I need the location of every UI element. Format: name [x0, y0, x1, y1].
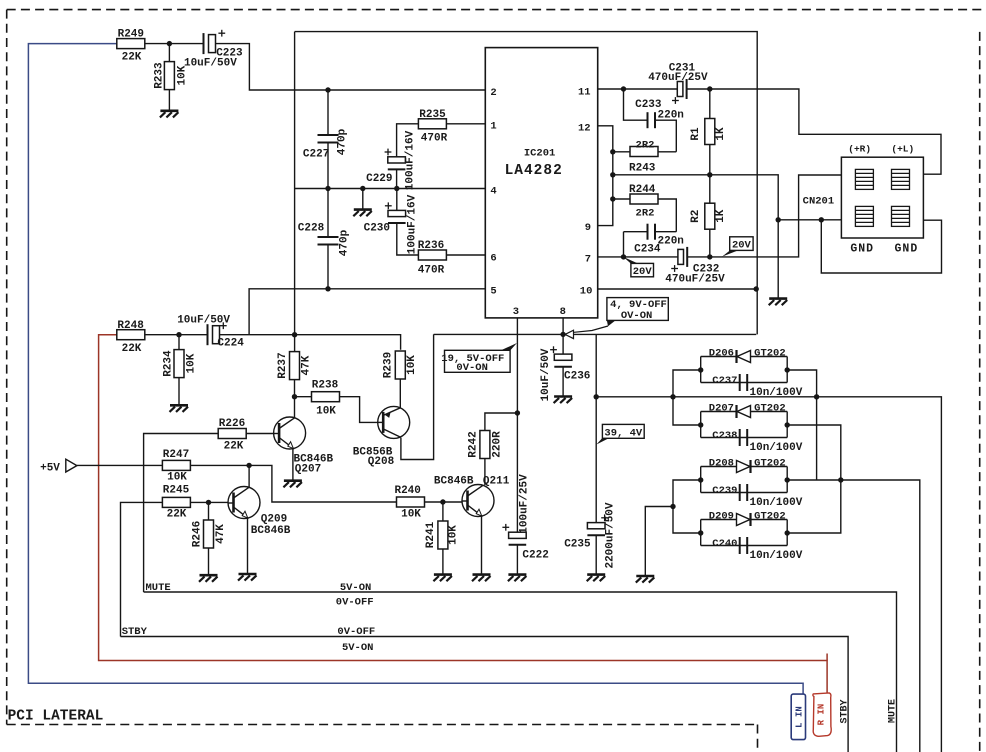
svg-text:2R2: 2R2 — [636, 208, 655, 220]
wire MUTE net — [144, 592, 897, 752]
svg-text:R226: R226 — [219, 418, 245, 430]
wire R236 to IC pin 6 — [446, 254, 485, 256]
svg-text:0V-ON: 0V-ON — [456, 362, 488, 374]
node +5V symbol — [66, 459, 77, 472]
resistor R233 — [168, 44, 170, 63]
svg-text:5: 5 — [490, 286, 496, 298]
resistor R248 — [117, 330, 145, 340]
node C234 drop junction with arrow — [621, 254, 626, 259]
svg-text:2: 2 — [490, 87, 496, 99]
svg-text:39, 4V: 39, 4V — [604, 427, 643, 439]
capacitor C238 — [740, 429, 748, 446]
capacitor C228 — [327, 189, 329, 237]
svg-text:C240: C240 — [712, 538, 737, 550]
svg-text:10n/100V: 10n/100V — [750, 442, 803, 454]
node R242 branch junction — [515, 410, 520, 415]
wire R226 left to MUTE vertical — [144, 434, 219, 593]
svg-text:47K: 47K — [215, 524, 227, 544]
svg-text:C229: C229 — [366, 173, 392, 185]
svg-text:R244: R244 — [629, 184, 656, 196]
ground R241 — [433, 575, 452, 582]
wire Q211 emitter to ground — [481, 516, 483, 575]
node D207 left tap — [698, 422, 703, 427]
node R1 top junction — [707, 86, 712, 91]
svg-text:4: 4 — [490, 185, 496, 197]
wire IC pin 10 row — [598, 288, 757, 290]
svg-text:8: 8 — [560, 306, 566, 318]
svg-text:C235: C235 — [564, 539, 591, 551]
wire +5V to R247 — [77, 464, 162, 466]
ground C235 — [587, 575, 606, 582]
node R244 left junction — [610, 196, 615, 201]
svg-text:0V-OFF: 0V-OFF — [336, 596, 374, 608]
svg-text:STBY: STBY — [840, 699, 851, 723]
svg-text:6: 6 — [490, 253, 496, 265]
svg-text:5V-ON: 5V-ON — [340, 582, 372, 594]
node CN201 left branch junction — [776, 217, 781, 222]
wire IC pin 4 row — [295, 188, 486, 190]
ground C222 — [508, 575, 527, 582]
svg-text:470R: 470R — [421, 133, 448, 145]
ground Q211 — [472, 575, 491, 582]
wire IC pin 11 row — [598, 88, 678, 90]
node D208 right tap — [785, 477, 790, 482]
node D208 left tap — [698, 477, 703, 482]
resistor R238 — [295, 396, 312, 398]
callout 20V left box leader — [624, 257, 639, 264]
svg-text:470uF/25V: 470uF/25V — [648, 72, 708, 84]
svg-text:BC846B: BC846B — [434, 475, 474, 487]
svg-text:D209: D209 — [709, 511, 734, 523]
wire pin 8 row horizontal — [434, 333, 757, 335]
svg-text:GT202: GT202 — [754, 511, 786, 523]
ground R233 — [160, 111, 179, 118]
svg-text:C230: C230 — [364, 222, 390, 234]
svg-text:GT202: GT202 — [754, 403, 786, 415]
node R2 bottom junction — [707, 254, 712, 259]
svg-text:10K: 10K — [406, 355, 418, 375]
wire R248 to C224 — [145, 334, 208, 336]
svg-text:C237: C237 — [712, 375, 737, 387]
svg-text:GT202: GT202 — [754, 458, 786, 470]
callout 19,5V-OFF leader — [501, 343, 517, 350]
node C228 bottom junction — [325, 286, 330, 291]
svg-text:5V-ON: 5V-ON — [342, 642, 374, 654]
svg-text:R238: R238 — [312, 380, 339, 392]
svg-text:10K: 10K — [316, 406, 336, 418]
capacitor C233 — [624, 89, 648, 120]
wire R245 to Q209 base — [191, 501, 228, 503]
svg-text:R247: R247 — [163, 449, 189, 461]
svg-text:R248: R248 — [117, 320, 144, 332]
callout 4,9V-OFF box leader — [607, 320, 616, 326]
svg-text:1K: 1K — [715, 127, 727, 141]
svg-text:MUTE: MUTE — [888, 699, 899, 723]
CN201 pad top-left — [855, 169, 873, 189]
wire Q208 collector to pin8 row — [401, 334, 434, 459]
svg-text:10n/100V: 10n/100V — [750, 387, 803, 399]
capacitor C230 — [396, 189, 398, 211]
wire top box — [295, 32, 758, 335]
capacitor C224 — [208, 324, 220, 345]
wire R238 to Q208 base — [340, 397, 378, 423]
diode D206 / capacitor C237 pair frame — [700, 357, 702, 383]
svg-text:7: 7 — [585, 253, 591, 265]
wire IC pin 3 vertical — [516, 318, 518, 532]
svg-text:Q208: Q208 — [368, 456, 395, 468]
svg-text:R IN: R IN — [817, 704, 827, 726]
resistor R239 — [395, 351, 405, 379]
svg-text:+5V: +5V — [40, 463, 60, 475]
wire second output row — [841, 480, 920, 752]
node C229/C230 junction — [394, 186, 399, 191]
node C224-row to R237 vertical — [292, 332, 297, 337]
transistor Q208 — [378, 406, 410, 438]
diode D207 / capacitor C238 pair frame — [700, 412, 702, 438]
resistor R246 — [208, 502, 210, 520]
page dashed border left — [6, 10, 8, 725]
wire R235 left to C229 — [397, 124, 419, 157]
node R241 junction — [440, 499, 445, 504]
wire C224 to R239 top — [220, 335, 401, 350]
node R246 junction — [206, 500, 211, 505]
svg-text:100uF/16V: 100uF/16V — [404, 130, 416, 190]
svg-text:1K: 1K — [715, 209, 727, 223]
node R1/R2 mid junction — [707, 172, 712, 177]
svg-text:R242: R242 — [468, 431, 480, 457]
callout 20V right box leader — [722, 251, 737, 257]
svg-text:C228: C228 — [298, 222, 325, 234]
node D206 right tap — [785, 367, 790, 372]
transistor Q211 — [462, 485, 494, 517]
svg-text:IC201: IC201 — [524, 148, 556, 160]
callout 20V right box — [730, 237, 753, 251]
svg-text:10uF/50V: 10uF/50V — [177, 315, 230, 327]
svg-text:22K: 22K — [122, 52, 142, 64]
svg-text:C224: C224 — [217, 338, 244, 350]
wire R240 to Q211 base — [425, 501, 463, 503]
resistor R244 — [613, 198, 630, 200]
svg-text:10: 10 — [580, 286, 593, 298]
capacitor C227 — [327, 90, 329, 134]
svg-text:Q207: Q207 — [295, 464, 321, 476]
page dashed border top — [7, 9, 982, 11]
svg-text:100uF/25V: 100uF/25V — [519, 474, 531, 534]
ground Q209 — [238, 574, 257, 581]
svg-text:GND: GND — [895, 243, 919, 256]
diode D208 — [737, 460, 751, 473]
connector CN201 box — [841, 157, 923, 238]
wire Q207 emitter to ground — [292, 448, 294, 481]
resistor R249 — [117, 39, 145, 49]
resistor R243 — [613, 151, 630, 153]
svg-text:22K: 22K — [224, 441, 244, 453]
page dashed border right — [979, 32, 981, 752]
resistor R241 — [442, 502, 444, 521]
svg-text:3: 3 — [513, 306, 519, 318]
svg-text:R243: R243 — [629, 162, 656, 174]
svg-text:D208: D208 — [709, 458, 734, 470]
svg-text:10K: 10K — [186, 353, 198, 373]
wire IC pin 7 row — [598, 256, 678, 258]
callout 4,9V-OFF box — [607, 298, 668, 321]
callout 20V left box — [631, 263, 654, 276]
wire D208 right tap row — [787, 479, 841, 481]
node D207 right tap — [785, 422, 790, 427]
svg-text:C234: C234 — [634, 244, 661, 256]
node pin10 right junction — [754, 286, 759, 291]
page dashed border bottom-right vertical — [757, 725, 759, 752]
wire IC pin 12 to pin 9 loop — [598, 126, 613, 226]
wire diode bracket to ground — [645, 507, 673, 577]
diode D206 — [737, 350, 751, 363]
svg-text:R245: R245 — [163, 485, 190, 497]
svg-text:C238: C238 — [712, 430, 737, 442]
svg-text:C222: C222 — [522, 550, 548, 562]
wire Q209 emitter to ground — [247, 518, 249, 574]
ground Q207 — [283, 481, 302, 488]
svg-text:0V-OFF: 0V-OFF — [337, 626, 375, 638]
svg-text:100uF/16V: 100uF/16V — [407, 194, 419, 254]
svg-text:10K: 10K — [448, 525, 460, 545]
wire diode-net output row — [596, 397, 941, 752]
svg-text:R249: R249 — [118, 29, 144, 41]
capacitor C237 — [740, 374, 748, 391]
svg-text:10n/100V: 10n/100V — [750, 497, 803, 509]
svg-text:1: 1 — [490, 121, 496, 133]
svg-text:10n/100V: 10n/100V — [750, 550, 803, 562]
svg-text:D207: D207 — [709, 403, 734, 415]
wire C232 to CN201 top-left pad — [687, 175, 841, 257]
capacitor C222 — [509, 532, 527, 545]
svg-text:PCI LATERAL: PCI LATERAL — [8, 708, 104, 724]
svg-text:C239: C239 — [712, 485, 737, 497]
svg-text:10uF/50V: 10uF/50V — [184, 58, 237, 70]
svg-text:C227: C227 — [303, 149, 329, 161]
capacitor C223 — [204, 33, 216, 54]
svg-text:R241: R241 — [425, 521, 437, 548]
wire red stub at R-IN corner — [826, 654, 828, 661]
node R249/R233/C223 junction — [167, 41, 172, 46]
wire CN201 bottom loop — [821, 220, 941, 273]
svg-text:R239: R239 — [383, 352, 395, 378]
svg-text:R246: R246 — [192, 521, 204, 547]
ground C236 — [554, 397, 573, 404]
svg-text:220n: 220n — [658, 110, 684, 122]
diode D209 / capacitor C240 pair frame — [700, 520, 702, 546]
wire pin11 to CN201 right — [687, 89, 941, 174]
svg-text:R235: R235 — [419, 109, 446, 121]
svg-text:220R: 220R — [492, 431, 504, 458]
wire R235 to IC pin 1 — [446, 123, 485, 125]
svg-text:D206: D206 — [709, 348, 734, 360]
connector L IN box — [791, 694, 805, 740]
wire L-IN blue net — [28, 44, 803, 695]
wire IC pin 5 row — [249, 289, 485, 335]
node mid-wire junction on pin12 loop — [610, 172, 615, 177]
wire R-IN red net — [99, 335, 828, 713]
svg-text:11: 11 — [578, 87, 591, 99]
ground CN201 net — [769, 299, 788, 306]
svg-text:OV-ON: OV-ON — [621, 310, 653, 322]
wire diode left riser bottom — [673, 480, 701, 533]
wire R237 bottom to Q207 collector — [294, 380, 296, 418]
node R243 left junction — [610, 149, 615, 154]
node D206 left tap — [698, 367, 703, 372]
wire R249 to C223 — [145, 43, 204, 45]
wire D207-D209 right riser — [787, 425, 841, 533]
arrow open pointer at pin 8 node — [565, 330, 574, 338]
svg-text:470uF/25V: 470uF/25V — [665, 273, 725, 285]
node diode left riser junction — [670, 394, 675, 399]
svg-text:(+R): (+R) — [848, 144, 871, 155]
svg-text:9: 9 — [585, 222, 591, 234]
resistor R242 — [485, 413, 518, 430]
svg-text:10K: 10K — [177, 65, 189, 85]
node pin4 ground junction — [360, 186, 365, 191]
svg-text:R233: R233 — [154, 62, 166, 89]
capacitor C231 — [677, 79, 686, 99]
resistor R2 — [709, 175, 711, 203]
resistor R234 — [178, 335, 180, 350]
wire mid row pin12 net to CN201 — [613, 175, 778, 299]
svg-text:BC846B: BC846B — [251, 525, 291, 537]
diode D207 — [737, 405, 751, 418]
wire left box vertical / R237 branch upper — [294, 32, 296, 353]
wire diode left riser top — [673, 370, 701, 425]
svg-text:R237: R237 — [277, 352, 289, 378]
node C233 branch junction — [621, 86, 626, 91]
capacitor C235 — [595, 397, 597, 523]
svg-text:R2: R2 — [690, 210, 702, 223]
capacitor C234 — [624, 231, 648, 233]
svg-text:R236: R236 — [418, 240, 444, 252]
svg-text:12: 12 — [578, 123, 591, 135]
connector R IN box — [813, 693, 831, 736]
node C227 top junction — [325, 87, 330, 92]
svg-text:2R2: 2R2 — [636, 140, 655, 152]
transistor Q209 — [228, 487, 260, 519]
diode D209 — [737, 513, 751, 526]
capacitor C240 — [740, 537, 748, 554]
resistor R1 — [709, 89, 711, 119]
node CN201 bottom loop junction — [819, 217, 824, 222]
wire R247 to Q209 collector and R240 — [191, 465, 397, 502]
svg-text:2200uF/50V: 2200uF/50V — [604, 502, 616, 568]
wire Q209 collector — [248, 465, 250, 487]
node Q209 collector junction — [246, 463, 251, 468]
svg-text:470R: 470R — [418, 265, 445, 277]
wire STBY net — [121, 637, 849, 752]
wire C223 to IC pin 2 — [216, 44, 486, 90]
node R234 junction — [176, 332, 181, 337]
svg-text:470p: 470p — [339, 229, 351, 256]
node diode bottom riser mid junction — [670, 504, 675, 509]
diode D208 / capacitor C239 pair frame — [700, 467, 702, 493]
resistor R236 — [418, 250, 446, 260]
svg-text:(+L): (+L) — [891, 144, 914, 155]
svg-text:CN201: CN201 — [803, 196, 835, 208]
resistor R226 — [246, 433, 273, 435]
svg-text:GT202: GT202 — [754, 348, 786, 360]
node right riser output junction — [838, 477, 843, 482]
capacitor C232 — [678, 247, 687, 267]
svg-text:STBY: STBY — [122, 626, 148, 638]
svg-text:R234: R234 — [163, 350, 175, 377]
op-amp IC U201 body — [485, 48, 597, 318]
svg-text:10uF/50V: 10uF/50V — [540, 348, 552, 401]
svg-text:10K: 10K — [167, 471, 187, 483]
node C227/C228 junction — [325, 186, 330, 191]
node C235 top junction — [594, 394, 599, 399]
callout 19,5V-OFF box — [445, 350, 511, 372]
svg-text:22K: 22K — [167, 509, 187, 521]
node D209 right tap — [785, 530, 790, 535]
svg-text:Q211: Q211 — [483, 475, 510, 487]
svg-text:R1: R1 — [690, 127, 702, 141]
svg-text:47K: 47K — [301, 355, 313, 375]
node D209 left tap — [698, 530, 703, 535]
svg-text:20V: 20V — [732, 240, 752, 252]
svg-text:10K: 10K — [401, 508, 421, 520]
svg-text:Q209: Q209 — [261, 514, 287, 526]
ground diode bracket — [636, 576, 655, 583]
wire pin8 row down to C235 node — [595, 334, 597, 396]
svg-text:R240: R240 — [394, 485, 420, 497]
wire D206 right tap riser — [787, 370, 816, 480]
svg-text:MUTE: MUTE — [146, 582, 171, 594]
resistor R235 — [418, 119, 446, 129]
svg-text:470p: 470p — [337, 128, 349, 155]
svg-text:C236: C236 — [564, 371, 590, 383]
svg-text:20V: 20V — [633, 266, 653, 278]
capacitor C239 — [740, 484, 748, 501]
transistor Q207 — [274, 417, 306, 449]
wire IC pin 8 vertical — [562, 318, 564, 354]
resistor R245 — [121, 502, 163, 636]
callout 39,4V box — [602, 424, 644, 438]
ground pin4 row — [362, 189, 364, 210]
resistor R237 — [290, 352, 300, 380]
node diode right riser junction — [814, 394, 819, 399]
resistor R240 — [397, 497, 425, 507]
node pin8 row junction — [560, 332, 565, 337]
svg-text:LA4282: LA4282 — [505, 163, 563, 179]
ground R234 — [170, 405, 189, 412]
svg-text:GND: GND — [850, 243, 874, 256]
svg-text:L IN: L IN — [795, 706, 805, 728]
svg-text:220n: 220n — [658, 235, 684, 247]
svg-text:22K: 22K — [122, 343, 142, 355]
resistor R247 — [162, 460, 190, 470]
capacitor C229 — [388, 157, 406, 170]
ground R246 — [199, 575, 218, 582]
page dashed border bottom — [7, 724, 758, 726]
node R238 junction — [292, 394, 297, 399]
wire to CN201 left pads — [778, 219, 841, 221]
callout 39,4V leader — [596, 438, 609, 445]
capacitor C236 — [554, 354, 572, 367]
